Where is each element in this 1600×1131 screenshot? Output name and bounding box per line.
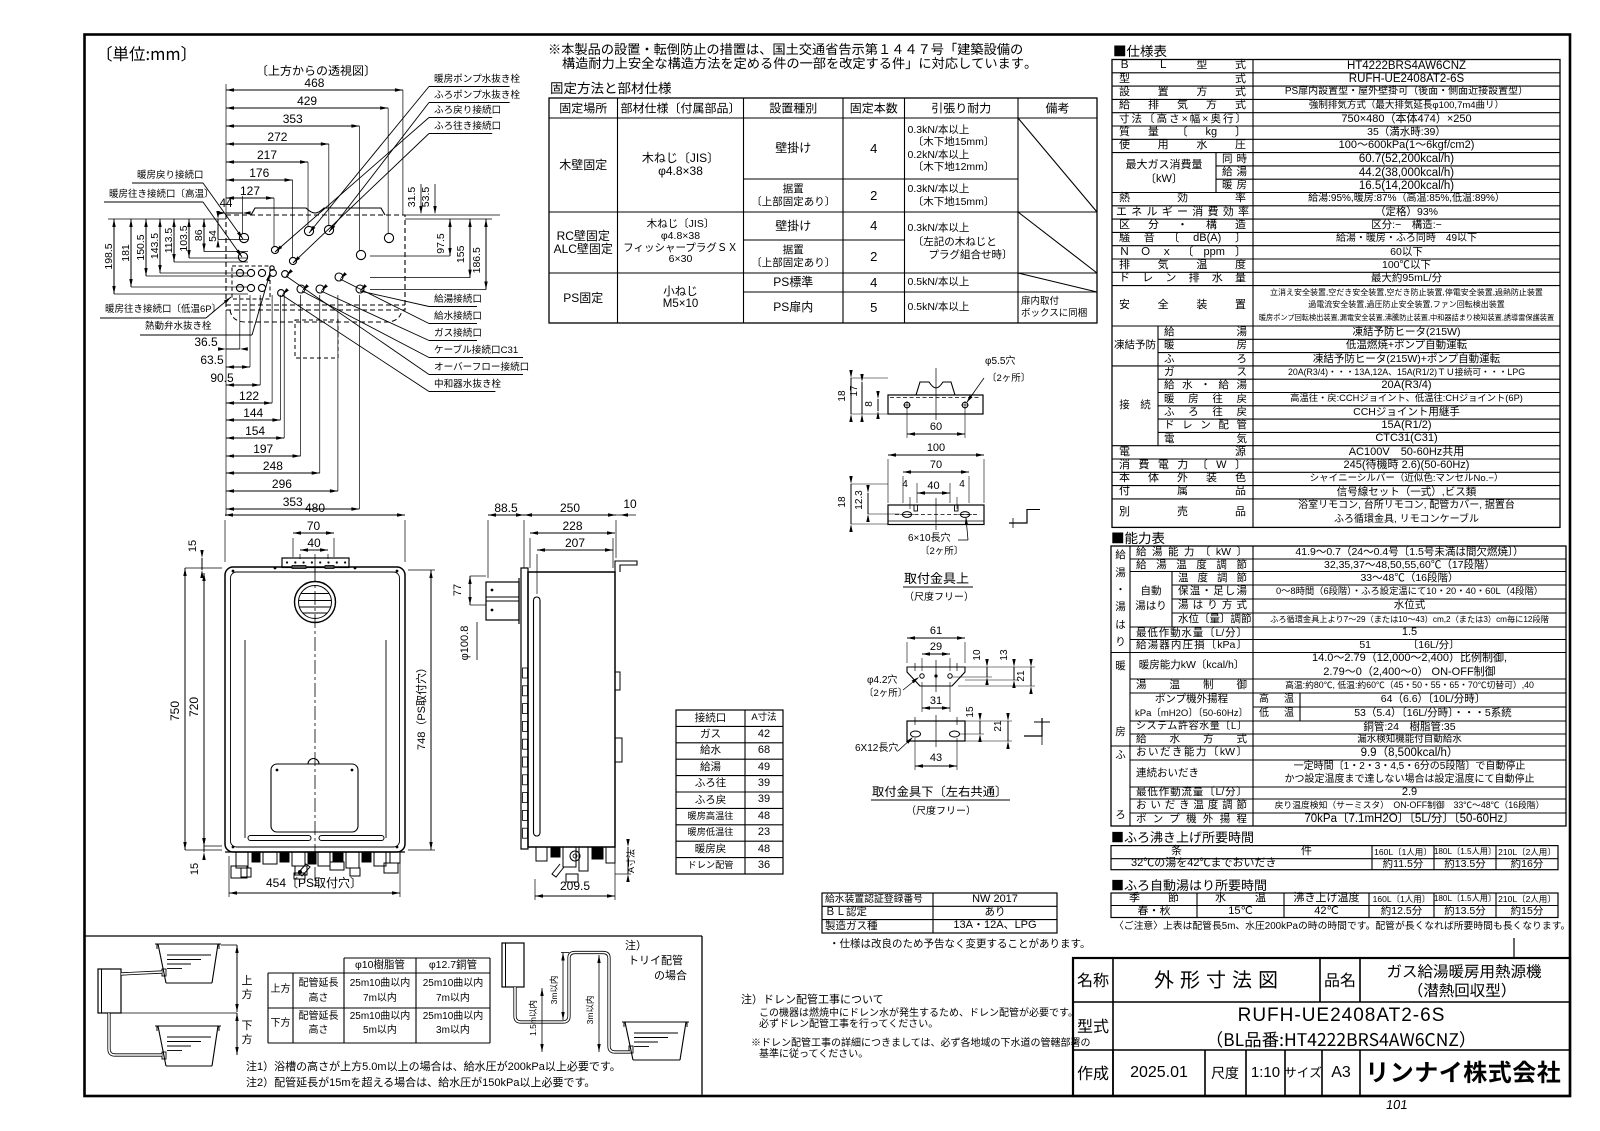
top view: flue bump: [251, 208, 385, 215]
6x10 slot label: [958, 539, 968, 541]
bracket-top left dims: [850, 378, 852, 414]
svg-text:150.5: 150.5: [135, 234, 147, 260]
svg-text:1.5m以内: 1.5m以内: [528, 1000, 538, 1036]
bracket-bottom top view shape: [907, 667, 965, 686]
svg-text:17: 17: [849, 385, 860, 397]
svg-text:103.5: 103.5: [178, 225, 190, 251]
svg-text:122: 122: [239, 389, 259, 403]
left piping: heater box: [98, 969, 121, 1013]
title block: [1073, 958, 1570, 1096]
left piping: upper tub: [155, 943, 221, 945]
front view: vent circle: [295, 582, 336, 623]
svg-text:4: 4: [959, 479, 965, 490]
bracket-bottom front dims 15/21: [979, 721, 981, 734]
svg-text:750: 750: [168, 701, 182, 721]
svg-text:15: 15: [189, 863, 201, 875]
svg-text:15: 15: [965, 706, 976, 718]
svg-text:86: 86: [193, 229, 205, 241]
bracket-bottom caption: [872, 785, 998, 797]
top view: small cluster circles: [236, 269, 243, 276]
bracket-top 60 dim: [907, 433, 965, 435]
bracket-top caption: [904, 572, 968, 584]
front view: corner screws: [232, 570, 235, 573]
fixation-method table grid: [549, 98, 1097, 323]
svg-text:77: 77: [452, 584, 464, 596]
svg-text:12.3: 12.3: [854, 490, 865, 510]
svg-text:61: 61: [930, 625, 942, 637]
top view: top dimension ladder: [226, 89, 403, 91]
biko diagonals: [1018, 118, 1097, 212]
top view: left lower labels: [100, 317, 206, 319]
svg-text:15: 15: [187, 540, 199, 552]
svg-text:3m以内: 3m以内: [585, 996, 595, 1025]
svg-text:21: 21: [993, 720, 1004, 732]
svg-text:113.5: 113.5: [163, 228, 175, 254]
bath auto-fill time table: [1112, 879, 1266, 891]
bracket-top front left dims: [850, 484, 852, 524]
svg-text:4: 4: [902, 479, 908, 490]
side view: body: [528, 572, 615, 847]
top view: bottom arc: [230, 310, 402, 322]
svg-text:155: 155: [455, 245, 467, 263]
svg-text:248: 248: [263, 459, 283, 473]
svg-text:A寸法: A寸法: [625, 849, 636, 873]
top view: left labels: [132, 182, 203, 184]
svg-text:29: 29: [930, 641, 942, 653]
side view: right protrusions: [615, 672, 620, 690]
phi5.5 label: [967, 378, 984, 402]
side view: louver dashes: [523, 668, 528, 678]
title block texts: [1078, 973, 1109, 988]
svg-text:13: 13: [999, 649, 1010, 661]
left piping: lower tub: [155, 1025, 221, 1027]
svg-text:88.5: 88.5: [494, 501, 518, 515]
svg-text:720: 720: [187, 697, 201, 717]
svg-text:54: 54: [207, 230, 219, 242]
top view: unit outline dashed: [226, 215, 405, 310]
top view: bottom dimension ladder: [225, 310, 227, 516]
torii piping: heater box: [502, 943, 524, 987]
6x12 label: [898, 738, 912, 751]
piping length table: [344, 957, 490, 959]
svg-text:228: 228: [562, 519, 582, 533]
svg-text:353: 353: [283, 495, 303, 509]
front view: top bracket: [282, 558, 349, 568]
phi4.2 label: [903, 678, 918, 690]
front view: door seams: [244, 640, 246, 838]
piping block border: [86, 935, 703, 937]
svg-text:353: 353: [283, 112, 303, 126]
side view: side slot: [534, 597, 541, 836]
svg-text:3m以内: 3m以内: [549, 976, 559, 1005]
svg-text:250: 250: [560, 501, 580, 515]
top view: right dims 97.5/155/186.5: [449, 219, 451, 256]
torii piping: dims: [539, 1051, 609, 1053]
svg-text:197: 197: [253, 442, 273, 456]
left piping: pipe to upper tub: [121, 972, 162, 974]
svg-text:209.5: 209.5: [560, 879, 590, 893]
svg-text:10: 10: [972, 649, 983, 661]
bracket-top front view: [888, 505, 984, 525]
bracket-top L glyph: [1009, 509, 1027, 523]
svg-text:70: 70: [930, 459, 942, 471]
svg-text:181: 181: [120, 244, 132, 262]
torii piping: tub: [622, 1021, 689, 1023]
top view: connection circles: [239, 233, 248, 242]
svg-text:8: 8: [864, 401, 875, 407]
svg-text:480: 480: [305, 501, 325, 515]
svg-text:10: 10: [623, 497, 637, 511]
side view: top hook: [615, 561, 637, 572]
svg-text:40: 40: [927, 480, 939, 492]
bracket-top side profile: [888, 395, 983, 414]
svg-text:100: 100: [927, 442, 945, 454]
bracket-bottom dims 10/13/21: [986, 667, 988, 677]
top view: right labels upper: [429, 86, 510, 88]
side view: bottom pipes: [536, 847, 547, 861]
left piping: pipe to lower tub: [109, 1013, 162, 1055]
svg-text:101: 101: [1385, 1097, 1409, 1112]
top view: right upper dims 31.5/53.5: [405, 214, 500, 216]
svg-text:18: 18: [837, 390, 848, 402]
bracket-bottom dim 31: [922, 707, 950, 709]
svg-text:186.5: 186.5: [471, 247, 483, 273]
svg-text:272: 272: [267, 130, 287, 144]
side view: dims: [488, 514, 524, 516]
capability table grid: [1112, 532, 1164, 545]
svg-text:97.5: 97.5: [435, 233, 447, 254]
svg-text:31: 31: [930, 695, 942, 707]
svg-text:φ100.8: φ100.8: [459, 626, 471, 661]
front view: bottom slots: [248, 836, 311, 841]
svg-text:207: 207: [565, 536, 585, 550]
svg-text:31.5: 31.5: [406, 187, 418, 208]
bracket-bottom dim 29: [922, 653, 950, 655]
top view: bottom right labels: [429, 306, 477, 308]
bracket-bottom front view: [907, 721, 965, 741]
svg-text:43: 43: [930, 752, 942, 764]
svg-text:63.5: 63.5: [200, 353, 224, 367]
left piping: up/down dims: [236, 945, 238, 1012]
svg-text:748（PS取付穴）: 748（PS取付穴）: [414, 662, 428, 750]
top view: lower dashed box: [295, 320, 338, 358]
torii piping: pipe: [515, 953, 630, 1053]
side view: back plate: [521, 568, 528, 849]
left piping: reference lines: [221, 944, 237, 946]
front view: access panel: [271, 764, 358, 832]
side view: flue duct: [486, 582, 519, 620]
svg-text:217: 217: [257, 148, 277, 162]
svg-text:60: 60: [930, 421, 942, 433]
top view: left dimension ladder: [108, 218, 226, 220]
bracket-bottom L glyph: [1024, 718, 1042, 736]
svg-text:429: 429: [297, 94, 317, 108]
svg-text:36.5: 36.5: [194, 335, 218, 349]
svg-text:40: 40: [307, 536, 321, 550]
top view: connector cluster box dashed: [232, 266, 270, 299]
bracket-top front dims: [888, 454, 984, 456]
bath heat-up time table: [1112, 831, 1253, 843]
front view: bottom pipe cluster: [236, 852, 248, 868]
svg-text:143.5: 143.5: [149, 233, 161, 259]
svg-text:198.5: 198.5: [103, 243, 115, 269]
svg-text:53.5: 53.5: [420, 187, 432, 208]
svg-text:154: 154: [245, 424, 265, 438]
spec table grid: [1114, 45, 1166, 58]
A-dimension table: [676, 710, 783, 874]
svg-text:454〔PS取付穴〕: 454〔PS取付穴〕: [266, 875, 362, 890]
certification table: [822, 893, 1057, 933]
front view: dims: [225, 514, 405, 516]
svg-text:90.5: 90.5: [210, 371, 234, 385]
bracket-bottom dim 61: [907, 637, 965, 639]
svg-text:468: 468: [304, 76, 324, 90]
svg-text:296: 296: [272, 477, 292, 491]
svg-text:144: 144: [243, 406, 263, 420]
front view: unit body: [225, 567, 405, 852]
svg-text:70: 70: [307, 519, 321, 533]
svg-text:18: 18: [837, 496, 848, 508]
front view: center line: [314, 568, 316, 888]
bracket-bottom dim 43: [915, 765, 957, 767]
